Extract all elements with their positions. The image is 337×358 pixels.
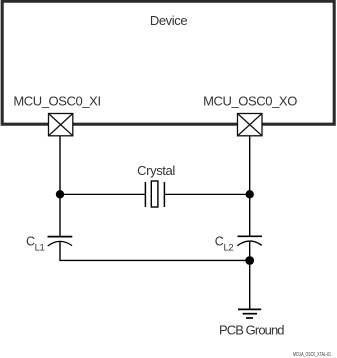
svg-text:PCB Ground: PCB Ground: [219, 323, 284, 338]
wire XI pin down to node A: [59, 136, 61, 195]
wire CL2 down to node C: [249, 241, 251, 260]
wire node B down to capacitor CL2: [249, 194, 251, 236]
capacitor CL2: [237, 236, 262, 245]
pin MCU_OSC0_XI: [49, 114, 73, 136]
node B junction dot: [246, 190, 254, 198]
capacitor CL1: [48, 237, 73, 246]
wire XO pin down to node B: [249, 136, 251, 195]
wire node C down to ground: [249, 260, 251, 309]
pin MCU_OSC0_XO: [238, 114, 263, 136]
svg-text:Device: Device: [150, 13, 188, 28]
node A junction dot: [56, 190, 64, 198]
crystal Y1: [145, 181, 164, 207]
wire node A down to capacitor CL1: [59, 194, 61, 236]
svg-text:Crystal: Crystal: [137, 163, 175, 178]
device outline U1: [2, 1, 334, 124]
svg-text:MCUA_OSC0_XTAL-01: MCUA_OSC0_XTAL-01: [293, 352, 331, 358]
wire crystal right to node B: [165, 193, 250, 195]
ground PCB: [238, 309, 261, 318]
svg-text:MCU_OSC0_XI: MCU_OSC0_XI: [13, 94, 100, 109]
wire bottom rail CL1 to node C: [60, 259, 250, 261]
svg-text:MCU_OSC0_XO: MCU_OSC0_XO: [203, 94, 297, 109]
wire node A to crystal left: [60, 193, 146, 195]
wire CL1 down to bottom rail: [59, 241, 61, 261]
node C junction dot: [245, 256, 254, 265]
